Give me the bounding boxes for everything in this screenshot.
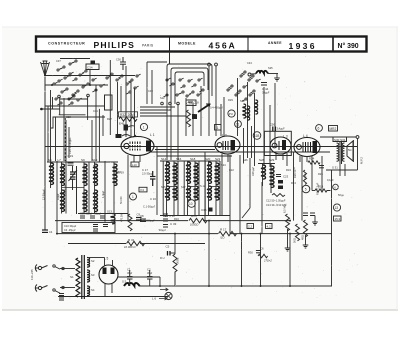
wires psu left (58, 269, 168, 297)
wire top bus (45, 84, 109, 86)
cap cluster bottom left box (62, 223, 115, 233)
stepped wires (140, 107, 186, 116)
coil S28 (261, 165, 265, 179)
scan speckle (42, 56, 362, 299)
svg-text:1: 1 (132, 195, 134, 199)
secondary S2 (87, 258, 90, 268)
svg-text:R32 20M: R32 20M (120, 113, 134, 117)
coil S14 (165, 162, 169, 184)
output transformer S30 S31 (333, 137, 347, 142)
svg-text:1: 1 (143, 126, 145, 130)
coil S15 (173, 163, 177, 185)
coil S7 (60, 164, 64, 186)
boxed 2-2 (247, 224, 254, 229)
svg-text:R22 0,3µF: R22 0,3µF (316, 182, 320, 195)
wires below tube L4 (294, 152, 358, 286)
svg-text:L 2: L 2 (222, 134, 227, 138)
svg-text:3,4µµF: 3,4µµF (277, 127, 286, 131)
wire (155, 149, 215, 151)
boxed K3 (139, 187, 147, 192)
capacitor C36 (120, 57, 126, 70)
svg-text:C.1-50µµf′: C.1-50µµf′ (143, 205, 155, 209)
tube L3 (270, 135, 291, 161)
svg-text:M.P.2: M.P.2 (360, 157, 364, 164)
coil S15b (173, 186, 177, 200)
svg-text:C30 30µµf · 30µµf: C30 30µµf · 30µµf (80, 212, 101, 216)
svg-text:C10 30µµf: C10 30µµf (64, 224, 76, 228)
svg-text:PHILIPS: PHILIPS (94, 40, 135, 50)
svg-text:C41: C41 (93, 109, 98, 113)
svg-text:R25: R25 (318, 172, 323, 176)
svg-text:11: 11 (236, 123, 240, 127)
svg-text:14 C 12: 14 C 12 (165, 214, 175, 218)
switch bank 1 contacts (53, 60, 105, 105)
capacitor C40 electrolytic (116, 134, 122, 138)
boxed MR2 (329, 126, 338, 132)
terminal posts (58, 94, 90, 98)
svg-text:S 19: S 19 (118, 171, 124, 175)
bus 221 (55, 220, 188, 222)
svg-text:C1: C1 (127, 268, 131, 272)
boxed L10 (131, 162, 139, 167)
circled 11 (235, 121, 242, 128)
wire bus 75.5 (45, 75, 136, 77)
svg-text:S18: S18 (190, 157, 196, 161)
svg-text:C5: C5 (166, 245, 170, 249)
box C38 tuning (186, 100, 196, 106)
svg-text:L 6: L 6 (152, 297, 156, 301)
shield box tube L3 (264, 131, 291, 155)
oscillator padder caps (276, 175, 283, 190)
svg-text:C19: C19 (68, 154, 74, 158)
switch bank 2 nested loops (167, 64, 212, 104)
oscillator coil S22 (243, 104, 246, 118)
junction dots (56, 220, 291, 287)
svg-text:MODELE: MODELE (178, 42, 196, 46)
switch bank 2 contacts (163, 78, 204, 97)
svg-text:S21: S21 (215, 157, 221, 161)
caps pair small (59, 294, 64, 301)
dashed link (64, 118, 66, 161)
caps C30 row above (80, 216, 105, 218)
circled 1 (140, 123, 147, 130)
circled PU (228, 110, 235, 117)
oscillator coil S23 (247, 106, 250, 120)
wire risers mid (167, 78, 275, 167)
svg-text:S24: S24 (221, 163, 226, 167)
svg-text:50Ω: 50Ω (293, 238, 297, 243)
svg-text:C 16: C 16 (150, 197, 156, 201)
wire vertical risers top-left (51, 60, 135, 162)
svg-text:S1: S1 (70, 275, 74, 279)
circled 13 (333, 204, 340, 211)
svg-text:C22: C22 (229, 168, 234, 172)
wire hv (118, 276, 160, 278)
svg-text:15:2: 15:2 (335, 217, 341, 221)
wire osc leads (243, 128, 245, 164)
svg-text:L7: L7 (58, 158, 62, 162)
svg-text:30µµF: 30µµF (262, 91, 270, 95)
svg-text:27Ω×2: 27Ω×2 (263, 259, 272, 263)
svg-text:S17: S17 (181, 185, 186, 189)
circled 10 (188, 200, 196, 208)
svg-text:1000Ω: 1000Ω (190, 223, 199, 227)
coil S14b (165, 186, 169, 200)
transformer core (81, 255, 83, 299)
svg-text:L10: L10 (132, 163, 137, 167)
circled 1b (130, 193, 137, 200)
svg-text:N° 390: N° 390 (338, 42, 359, 50)
svg-text:6: 6 (318, 127, 320, 131)
svg-text:4,2: 4,2 (267, 225, 272, 229)
svg-text:L 3: L 3 (283, 135, 288, 139)
switch contacts psu (53, 265, 64, 293)
resistor R32 (119, 112, 138, 117)
resistor R23 vertical (303, 170, 306, 184)
variable capacitor arrow (198, 104, 210, 112)
svg-text:S30 S31: S30 S31 (334, 138, 346, 142)
heater line (45, 146, 358, 148)
coil lead wires (51, 161, 272, 216)
svg-text:R29: R29 (228, 98, 233, 102)
boxed 15-2 (334, 216, 342, 221)
speaker (347, 141, 353, 161)
coil S16b (186, 186, 190, 200)
circled 6b (333, 184, 339, 190)
svg-text:S9: S9 (81, 158, 85, 162)
circled 5 (302, 185, 310, 193)
tube L1 (121, 133, 155, 162)
svg-text:ANNEE: ANNEE (268, 41, 282, 45)
svg-text:S4: S4 (91, 288, 95, 292)
svg-text:C 33: C 33 (170, 222, 177, 226)
ground (312, 222, 318, 225)
svg-text:R14: R14 (286, 168, 291, 172)
svg-text:S20: S20 (205, 157, 211, 161)
svg-text:R27: R27 (107, 117, 112, 121)
svg-text:C43: C43 (247, 61, 252, 65)
resistor R31 (127, 241, 145, 245)
svg-text:C 17: C 17 (142, 168, 148, 172)
svg-text:C4: C4 (49, 230, 53, 234)
svg-text:C39: C39 (148, 89, 153, 93)
svg-text:S11: S11 (93, 164, 98, 168)
svg-text:/1Ω: /1Ω (219, 236, 225, 240)
svg-text:C36: C36 (116, 58, 121, 62)
coil S20 (207, 162, 211, 184)
svg-text:50.000: 50.000 (120, 196, 123, 204)
coil S19 (93, 164, 97, 186)
svg-text:S26: S26 (243, 158, 248, 162)
svg-text:K3: K3 (141, 188, 145, 192)
svg-text:C34: C34 (87, 66, 93, 70)
switch contacts small cluster (68, 95, 82, 105)
shield box small (105, 95, 113, 110)
ground (303, 245, 309, 248)
svg-text:C37: C37 (56, 59, 61, 63)
svg-text:456A: 456A (209, 41, 237, 51)
svg-text:S 31: S 31 (332, 166, 338, 170)
svg-text:1,4µµf: 1,4µµf (102, 191, 105, 198)
svg-text:0,1µF: 0,1µF (327, 178, 334, 182)
svg-text:R30: R30 (248, 251, 253, 255)
svg-text:S19: S19 (92, 158, 98, 162)
caps C12 C13 mid (163, 214, 168, 221)
wire coil tops (47, 161, 275, 216)
svg-text:S6: S6 (48, 158, 52, 162)
svg-text:R 31: R 31 (128, 238, 135, 242)
capacitor C4 antenna (42, 230, 48, 232)
svg-text:C35: C35 (201, 208, 207, 212)
svg-text:2,2: 2,2 (248, 225, 253, 229)
IF can sides (163, 161, 220, 216)
capacitor C18 (188, 100, 193, 102)
svg-text:S15: S15 (161, 185, 166, 189)
coil S20b (207, 186, 211, 200)
circled 11B (253, 132, 261, 140)
coil S16 (186, 162, 190, 184)
capacitor C34 (86, 61, 99, 70)
svg-text:PU: PU (229, 112, 233, 116)
svg-text:300Ω: 300Ω (176, 258, 180, 264)
svg-text:L 1: L 1 (150, 133, 155, 137)
svg-text:C8: C8 (140, 214, 144, 218)
bus R31 line (68, 243, 126, 245)
boxed 4,2 (266, 224, 273, 229)
svg-text:C4 .25µµf: C4 .25µµf (64, 228, 76, 232)
svg-text:10µµf: 10µµf (57, 193, 60, 200)
svg-text:S13: S13 (107, 210, 112, 214)
svg-text:C28: C28 (66, 115, 71, 119)
svg-text:10.000 Ω: 10.000 Ω (124, 245, 136, 249)
resistor R17 (219, 231, 237, 235)
svg-text:1: 1 (217, 126, 219, 130)
junction dots top (44, 75, 91, 87)
resistor R28 (187, 110, 191, 127)
diagonal wire (242, 208, 250, 218)
svg-text:S3: S3 (91, 273, 95, 277)
coil S7b (60, 190, 64, 212)
svg-text:PARIS: PARIS (142, 44, 154, 48)
small inductor top (256, 71, 268, 74)
svg-text:S14: S14 (161, 157, 167, 161)
svg-text:MR2: MR2 (330, 127, 337, 131)
resistor R24 vertical (128, 214, 132, 231)
tube L4 (294, 134, 320, 162)
coil S21 (215, 163, 219, 185)
transformer windings (337, 142, 345, 164)
wire (45, 105, 106, 107)
svg-text:R.U: R.U (160, 256, 165, 260)
resistor R19 (174, 234, 176, 254)
svg-text:C26 µµf: C26 µµf (252, 167, 255, 176)
svg-text:6,5 MΩ: 6,5 MΩ (283, 205, 287, 213)
caps right pair (303, 213, 315, 216)
svg-text:R 17: R 17 (220, 228, 227, 232)
coil S19b (93, 190, 97, 212)
svg-text:11B: 11B (254, 134, 259, 138)
oscillator coil S24 (255, 100, 258, 114)
svg-text:C2: C2 (147, 268, 151, 272)
coil S9 (83, 164, 87, 186)
svg-text:C6: C6 (260, 247, 264, 251)
svg-text:2,5-30µµf: 2,5-30µµf (142, 172, 153, 176)
svg-text:L 4: L 4 (303, 134, 308, 138)
svg-text:R15: R15 (191, 214, 197, 218)
wire risers above L2 (221, 97, 224, 136)
svg-text:C56: C56 (270, 123, 276, 127)
capacitor C19 (68, 163, 74, 165)
svg-text:C12 50–1,05µµF: C12 50–1,05µµF (266, 199, 286, 203)
svg-text:S25: S25 (268, 66, 273, 70)
svg-text:110–245: 110–245 (30, 269, 34, 280)
coil S29 (270, 166, 274, 188)
svg-text:S2: S2 (91, 259, 95, 263)
svg-text:S22: S22 (240, 99, 245, 103)
switch bank 1b contacts (106, 73, 141, 94)
circled 6 (316, 125, 323, 132)
wire bends (51, 117, 105, 161)
svg-text:“40µµf: “40µµf (158, 228, 166, 232)
svg-text:S.12: S.12 (200, 184, 206, 188)
switch bank 3 contacts (227, 71, 261, 101)
svg-text:S28: S28 (259, 158, 265, 162)
ground (285, 248, 291, 251)
svg-text:S29: S29 (269, 158, 275, 162)
capacitor C44 (261, 83, 267, 86)
vertical drops to bottom bus (209, 221, 290, 286)
coil S9b (83, 190, 87, 212)
vertical wires coil area (57, 146, 287, 234)
title block frame (36, 37, 367, 52)
coil S17b (194, 186, 198, 200)
svg-text:C23: C23 (283, 175, 289, 179)
bus 233.6 with R17 (57, 233, 218, 235)
svg-text:12-30µµf: 12-30µµf (42, 189, 46, 200)
svg-text:5: 5 (305, 188, 307, 192)
wire top (60, 58, 90, 60)
antenna (41, 61, 50, 77)
svg-text:1936: 1936 (289, 41, 317, 51)
secondary S3 (87, 270, 90, 282)
svg-text:48Ω: 48Ω (301, 235, 305, 240)
resistor mid vertical (304, 220, 308, 237)
resistor 50 vertical (296, 224, 300, 241)
svg-text:5Ω: 5Ω (348, 148, 351, 152)
boxed 1 (215, 125, 222, 131)
trimmer caps left (69, 166, 78, 214)
junction (40, 108, 43, 111)
tube L2 (215, 134, 240, 163)
coil S6 (49, 163, 53, 185)
svg-text:S16: S16 (176, 157, 182, 161)
wire network left (40, 96, 103, 162)
resistor R18 (315, 189, 331, 192)
svg-text:C38: C38 (187, 102, 193, 106)
resistor 6.5M vertical (286, 214, 290, 231)
svg-text:R24: R24 (309, 157, 315, 161)
coil S13 (111, 214, 115, 224)
coil S10 (113, 164, 117, 186)
terminal circles row (161, 102, 180, 105)
ground top right (276, 74, 278, 79)
svg-text:10: 10 (189, 202, 193, 206)
svg-text:CONSTRUCTEUR: CONSTRUCTEUR (48, 42, 85, 46)
wire antenna lead (44, 77, 46, 230)
coil S17 (194, 163, 198, 185)
terminal circles top (208, 63, 218, 136)
svg-text:C29 30-30µµF: C29 30-30µµF (68, 137, 72, 154)
mains plug top (35, 265, 48, 292)
terminal top right (356, 136, 359, 139)
svg-text:0,4-450µµf: 0,4-450µµf (210, 106, 223, 110)
svg-text:S12: S12 (160, 96, 165, 100)
svg-text:R26 50™: R26 50™ (293, 167, 297, 178)
resistor osc (272, 194, 285, 197)
wire from title (169, 52, 171, 65)
secondary S4 (87, 286, 90, 296)
wire risers left of loops (147, 62, 167, 104)
resistor R15 (189, 218, 207, 222)
coil S21b (215, 186, 219, 200)
transformer S1 primary (76, 258, 80, 297)
wire (157, 155, 232, 157)
coil ties (62, 187, 216, 188)
wire (150, 151, 330, 153)
svg-text:C 44: C 44 (262, 87, 269, 91)
